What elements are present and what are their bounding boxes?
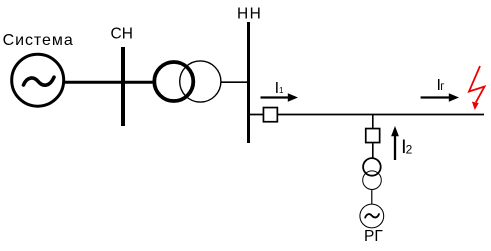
- wire: system source to transformer T1 (through СН bus): [64, 81, 156, 84]
- bus НН: [247, 22, 250, 143]
- svg-text:НН: НН: [237, 6, 262, 23]
- fault lightning symbol: [469, 66, 485, 110]
- svg-text:СН: СН: [111, 26, 133, 43]
- wire: transformer T1 to НН bus: [221, 81, 248, 83]
- svg-text:1: 1: [279, 86, 284, 95]
- breaker Q2 on DG branch: [366, 129, 380, 143]
- transformer T1 secondary winding: [180, 61, 221, 102]
- svg-text:Система: Система: [3, 32, 74, 49]
- wire: transformer T2 to generator РГ: [371, 190, 373, 205]
- breaker Q1 on feeder: [263, 108, 277, 122]
- generator РГ (distributed generation): [360, 204, 384, 228]
- wire: feeder from НН bus to fault point: [250, 114, 484, 116]
- system source S (equivalent grid): [12, 54, 64, 106]
- arrow I1 direction: [261, 96, 290, 98]
- svg-text:РГ: РГ: [364, 228, 383, 245]
- sine symbol inside generator РГ: [365, 214, 379, 218]
- svg-text:2: 2: [406, 143, 413, 157]
- sine symbol inside system source: [24, 77, 55, 85]
- arrow Iг direction: [421, 96, 450, 98]
- arrow I2 direction: [394, 135, 396, 160]
- wire: branch from feeder down to breaker Q2: [372, 115, 374, 129]
- wire: breaker Q2 to transformer T2: [372, 143, 374, 158]
- transformer T2 lower winding: [363, 171, 382, 190]
- transformer T2 upper winding: [363, 158, 381, 176]
- svg-text:г: г: [440, 81, 444, 93]
- transformer T1 primary winding: [154, 62, 193, 101]
- bus СН: [121, 47, 125, 126]
